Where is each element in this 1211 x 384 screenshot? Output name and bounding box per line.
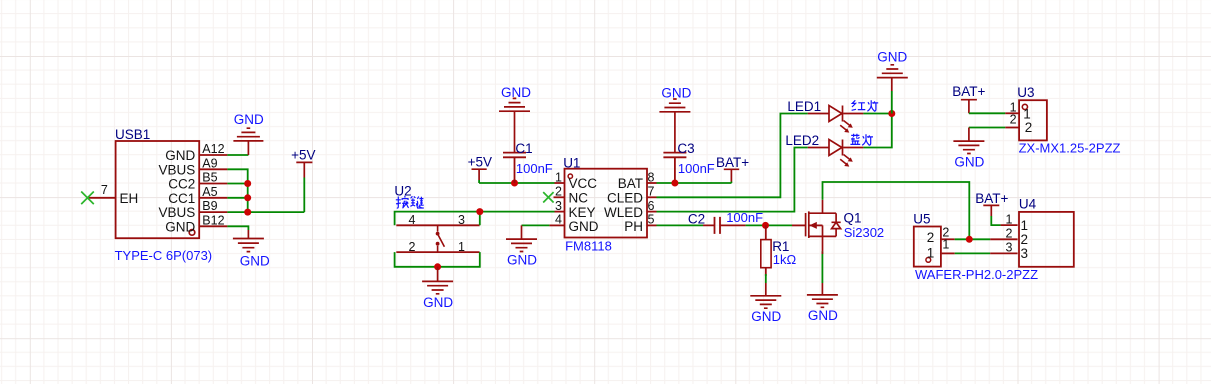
svg-text:100nF: 100nF	[678, 161, 715, 176]
ground flag GND (C3, inverted)	[659, 86, 691, 153]
svg-text:Si2302: Si2302	[844, 225, 884, 240]
junction U5/U4	[966, 236, 973, 243]
svg-text:A12: A12	[202, 142, 224, 156]
capacitor C2	[657, 210, 764, 234]
svg-text:1: 1	[458, 240, 465, 254]
wire U5 pin 2 to junction	[955, 238, 991, 240]
svg-text:5: 5	[648, 213, 655, 227]
svg-text:USB1: USB1	[115, 127, 150, 142]
ground flag GND (R1)	[750, 283, 781, 324]
svg-text:1kΩ: 1kΩ	[773, 252, 797, 267]
pushbutton U2 pins 2-1 line	[396, 251, 479, 253]
svg-text:U5: U5	[913, 212, 930, 227]
junction B5	[244, 180, 251, 187]
connector U5 body	[914, 227, 941, 267]
pushbutton U2 pins 4-3 line	[396, 224, 479, 226]
svg-text:C1: C1	[515, 141, 532, 156]
U1 pin 1 indicator	[568, 174, 572, 178]
svg-text:GND: GND	[877, 50, 907, 65]
capacitor C3	[663, 141, 714, 183]
svg-text:WLED: WLED	[604, 205, 643, 220]
junction C3	[671, 180, 678, 187]
power flag +5V (U1)	[468, 155, 492, 183]
wire A9 down to B9	[227, 169, 247, 212]
LED D1 name 红灯	[852, 100, 879, 111]
U3 pin 1 stub	[1005, 112, 1018, 114]
wire U3 pin 2 to ground	[969, 127, 1005, 129]
svg-text:2: 2	[1021, 232, 1029, 247]
power flag BAT+ (C3)	[716, 155, 749, 183]
svg-text:GND: GND	[507, 253, 537, 268]
connector USB1 body	[116, 141, 200, 238]
svg-text:GND: GND	[423, 295, 453, 310]
wire U1 pin 4 to ground	[522, 224, 550, 226]
junction R1	[762, 222, 769, 229]
wire BAT+ to U3 pin 1	[969, 112, 1005, 114]
svg-text:4: 4	[555, 213, 562, 227]
wire A5	[227, 197, 247, 199]
svg-text:PH: PH	[624, 219, 643, 234]
U1 pin 1 stub	[555, 182, 565, 184]
U1 pin 7 stub	[647, 196, 657, 198]
ground flag GND (U1 pin 4)	[506, 225, 537, 267]
svg-text:LED2: LED2	[785, 133, 819, 148]
svg-text:VCC: VCC	[569, 176, 598, 191]
LED D2 name 蓝灯	[850, 134, 873, 146]
USB1 pin B9 stub	[199, 211, 227, 213]
svg-text:3: 3	[458, 213, 465, 227]
USB1 pin 7 EH stub	[88, 197, 115, 199]
svg-text:GND: GND	[751, 309, 781, 324]
wire WLED to LED2	[657, 148, 808, 212]
junction LED ground	[888, 110, 895, 117]
svg-text:A9: A9	[202, 156, 217, 170]
LED D2 蓝灯	[808, 140, 864, 167]
USB1 pin A5 stub	[199, 197, 227, 199]
IC U1 body	[565, 169, 648, 238]
svg-text:3: 3	[1021, 246, 1029, 261]
svg-text:B5: B5	[202, 171, 217, 185]
svg-text:8: 8	[648, 170, 655, 184]
svg-text:Q1: Q1	[844, 211, 862, 226]
U3 pin 1 indicator	[1022, 104, 1027, 109]
U2 name 按键 (button)	[396, 196, 424, 209]
wire B9 to +5V	[227, 211, 304, 213]
svg-text:2: 2	[1006, 227, 1013, 241]
svg-text:2: 2	[1010, 112, 1017, 126]
svg-text:FM8118: FM8118	[565, 239, 612, 254]
svg-text:GND: GND	[569, 219, 599, 234]
capacitor C1	[503, 141, 553, 183]
no-connect X on EH pin	[81, 192, 94, 205]
svg-text:ZX-MX1.25-2PZZ: ZX-MX1.25-2PZZ	[1019, 140, 1121, 155]
wire C2 to gate	[746, 224, 792, 226]
svg-text:BAT+: BAT+	[716, 155, 749, 170]
U2 contact dot bottom	[436, 242, 440, 246]
svg-text:VBUS: VBUS	[159, 162, 196, 177]
wire U5 pin 1 to U4 pin 3	[955, 252, 991, 254]
U1 pin 4 stub	[549, 224, 564, 226]
svg-text:2: 2	[1025, 120, 1033, 135]
svg-text:GND: GND	[240, 253, 270, 268]
svg-text:TYPE-C 6P(073): TYPE-C 6P(073)	[115, 248, 213, 263]
svg-text:4: 4	[409, 213, 416, 227]
wire B5	[227, 183, 247, 185]
svg-text:2: 2	[927, 230, 935, 245]
svg-text:GND: GND	[234, 112, 264, 127]
wire LED1 cathode to junction	[863, 113, 891, 115]
USB1 pin A12 stub	[199, 154, 227, 156]
junction U2 ground	[434, 263, 441, 270]
svg-text:BAT: BAT	[618, 176, 643, 191]
svg-text:BAT+: BAT+	[952, 84, 985, 99]
svg-text:GND: GND	[808, 308, 838, 323]
U4 pin 3 stub	[990, 252, 1017, 254]
svg-text:U4: U4	[1019, 197, 1037, 212]
svg-text:BAT+: BAT+	[975, 191, 1008, 206]
svg-text:7: 7	[648, 185, 655, 199]
wire CLED to LED1	[657, 114, 808, 198]
svg-text:LED1: LED1	[787, 99, 821, 114]
svg-text:+5V: +5V	[291, 148, 315, 163]
U4 pin 2 stub	[990, 238, 1017, 240]
U1 pin 3 stub	[555, 211, 565, 213]
U1 pin 6 stub	[647, 211, 657, 213]
no-connect X on pin 2	[543, 192, 553, 202]
svg-text:EH: EH	[120, 191, 139, 206]
svg-text:WAFER-PH2.0-2PZZ: WAFER-PH2.0-2PZZ	[915, 267, 1038, 282]
power flag BAT+ (U4)	[975, 191, 1008, 225]
transistor Q1 Si2302	[792, 200, 884, 251]
ground flag GND (USB top, inverted)	[233, 112, 264, 155]
ground flag GND (C1, inverted)	[499, 85, 531, 153]
wire U2 bottom loop	[395, 252, 480, 267]
ground flag GND (USB bottom)	[233, 230, 270, 268]
U1 pin 8 stub	[647, 182, 657, 184]
svg-text:B12: B12	[202, 213, 224, 227]
svg-text:7: 7	[101, 183, 108, 197]
resistor R1	[761, 225, 797, 276]
junction KEY	[476, 208, 483, 215]
wire +5V to VCC	[479, 182, 554, 184]
svg-text:1: 1	[942, 238, 949, 252]
svg-text:VBUS: VBUS	[159, 205, 196, 220]
ground flag GND (Q1)	[807, 251, 838, 323]
svg-text:2: 2	[555, 185, 562, 199]
wire B12 to ground	[227, 226, 248, 230]
pushbutton U2 actuator	[438, 225, 445, 252]
junction A5	[244, 194, 251, 201]
USB1 pin B12 bubble	[189, 230, 195, 236]
LED D1 红灯	[808, 106, 864, 133]
wire junction up to ground	[891, 91, 893, 114]
svg-text:+5V: +5V	[468, 155, 492, 170]
power flag BAT+ (U3)	[952, 84, 985, 113]
svg-text:NC: NC	[569, 191, 589, 206]
svg-text:U1: U1	[563, 155, 580, 170]
svg-text:6: 6	[648, 199, 655, 213]
ground flag GND (U3)	[953, 128, 984, 170]
wire BAT to BAT+	[657, 182, 732, 184]
wire R1 to ground	[765, 274, 767, 283]
wire LED2 cathode up	[863, 114, 891, 148]
svg-text:100nF: 100nF	[726, 210, 763, 225]
svg-text:CLED: CLED	[607, 191, 643, 206]
wire Q1 drain to connector	[823, 182, 970, 239]
U4 pin 1 stub	[1001, 224, 1018, 226]
svg-text:B9: B9	[202, 199, 217, 213]
USB1 pin A9 stub	[199, 168, 227, 170]
svg-text:C2: C2	[688, 212, 705, 227]
svg-text:1: 1	[1006, 212, 1013, 226]
svg-text:1: 1	[1021, 218, 1029, 233]
U5 pin 2 stub	[942, 238, 955, 240]
svg-text:GND: GND	[165, 148, 195, 163]
USB1 pin B12 stub	[199, 225, 227, 227]
ground flag GND (U2)	[422, 267, 453, 310]
U2 contact dot top	[436, 232, 440, 236]
svg-text:CC1: CC1	[168, 191, 195, 206]
wire A12 to ground	[227, 154, 248, 156]
svg-text:CC2: CC2	[168, 177, 195, 192]
svg-text:1: 1	[927, 245, 935, 260]
svg-text:U3: U3	[1017, 85, 1034, 100]
svg-text:3: 3	[1006, 241, 1013, 255]
power flag +5V (USB)	[291, 148, 315, 213]
wire Q1 source to ground	[821, 251, 823, 283]
junction B9	[244, 209, 251, 216]
wire KEY to U1 pin 3	[480, 211, 555, 213]
connector U3 body	[1019, 100, 1047, 140]
svg-text:GND: GND	[954, 155, 984, 170]
svg-text:KEY: KEY	[569, 205, 596, 220]
U5 pin 1 indicator	[926, 258, 931, 263]
svg-text:1: 1	[555, 170, 562, 184]
svg-text:GND: GND	[165, 219, 195, 234]
junction C1	[511, 180, 518, 187]
svg-text:3: 3	[555, 199, 562, 213]
U3 pin 2 stub	[1005, 127, 1018, 129]
USB1 pin B5 stub	[199, 183, 227, 185]
U1 pin 2 stub	[554, 196, 565, 198]
svg-text:2: 2	[409, 240, 416, 254]
ground flag GND (LED, inverted)	[877, 50, 908, 92]
svg-text:A5: A5	[202, 185, 217, 199]
U1 pin 5 stub	[647, 224, 657, 226]
wire U2 top loop to KEY	[395, 212, 480, 226]
U5 pin 1 stub	[942, 252, 955, 254]
connector U4 body	[1019, 212, 1074, 267]
svg-text:100nF: 100nF	[516, 161, 553, 176]
svg-text:U2: U2	[394, 183, 411, 198]
svg-text:C3: C3	[677, 141, 694, 156]
